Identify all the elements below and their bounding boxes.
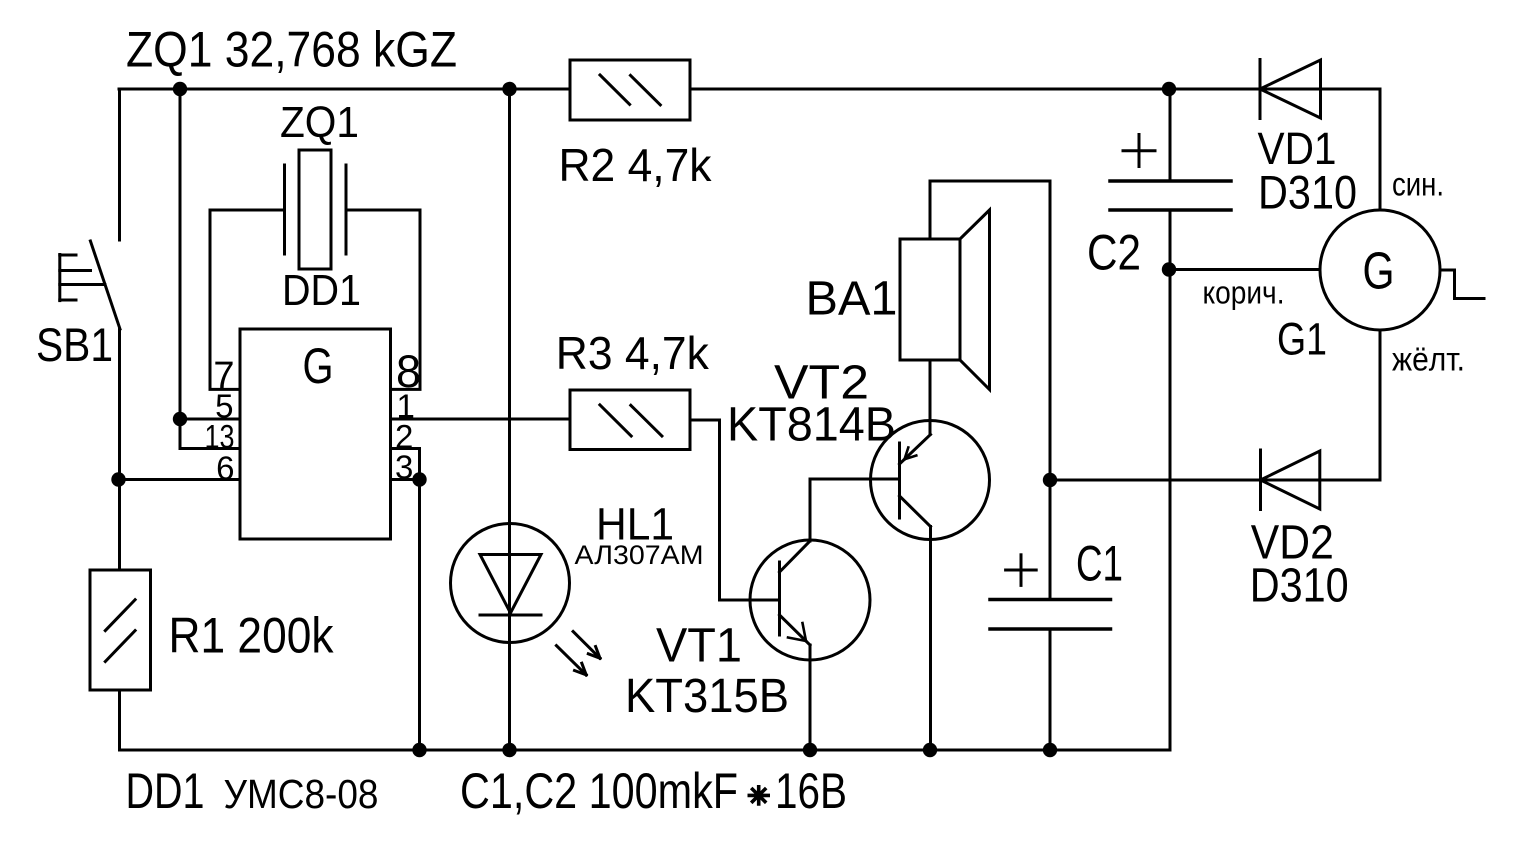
wire top rail left segment — [119, 88, 570, 91]
label UMC8-08 — [224, 771, 379, 817]
resistor R3 — [570, 390, 690, 450]
wire bottom rail — [120, 749, 1171, 752]
wire pin 6 stub — [119, 478, 241, 481]
wire top rail right segment — [690, 88, 1380, 91]
wire pin 5 stub — [180, 418, 240, 421]
junction dot pin 3 — [412, 472, 426, 486]
label BA1 — [806, 273, 898, 326]
junction dot top HL1 — [502, 82, 516, 96]
label D310 lower — [1250, 560, 1349, 613]
label DD1 — [282, 266, 361, 315]
label R3 4,7k — [556, 327, 710, 379]
wire VD2 rail — [1050, 479, 1380, 482]
junction dot C2 bottom — [1162, 262, 1176, 276]
junction dot bottom VT1 — [803, 743, 817, 757]
pin number 6 — [216, 449, 234, 486]
pin number 3 — [395, 448, 413, 485]
label C1 — [1076, 536, 1123, 592]
junction dot bottom VT2 — [923, 743, 937, 757]
diode VD1 — [1260, 60, 1321, 119]
wire SB1 top lead — [118, 89, 121, 240]
crystal ZQ1 — [285, 150, 347, 269]
svg-text:G: G — [1363, 243, 1395, 301]
svg-text:C1,C2 100mkF: C1,C2 100mkF — [460, 763, 738, 819]
label korich brown — [1203, 275, 1285, 311]
svg-text:син.: син. — [1392, 166, 1444, 203]
wire R1 bottom lead — [118, 690, 121, 750]
junction dot top C2 — [1162, 82, 1176, 96]
svg-text:корич.: корич. — [1203, 275, 1285, 311]
speaker BA1 — [900, 210, 990, 390]
IC DD1 — [240, 329, 391, 539]
wire C1 bottom lead — [1049, 629, 1052, 750]
junction dot pin 6 — [111, 472, 125, 486]
transistor VT2 — [871, 421, 990, 540]
svg-text:KT315B: KT315B — [625, 670, 789, 723]
svg-text:6: 6 — [216, 449, 234, 486]
wire pin 1 to R3 — [391, 418, 571, 421]
resistor R1 — [90, 570, 151, 690]
label SB1 — [36, 318, 113, 371]
svg-text:АЛ307АМ: АЛ307АМ — [575, 540, 704, 570]
label ZQ1 — [280, 98, 359, 147]
switch SB1 — [60, 241, 120, 329]
svg-text:DD1: DD1 — [126, 763, 205, 819]
wire right drop C2 top — [1169, 89, 1172, 181]
wire BA1 top to C1 branch — [930, 181, 1050, 600]
wire right drop C2 bottom — [1169, 210, 1172, 750]
svg-text:R3 4,7k: R3 4,7k — [556, 327, 710, 379]
LED HL1 — [451, 524, 601, 675]
label DD1 bottom — [126, 763, 205, 819]
svg-text:G: G — [303, 338, 334, 394]
svg-text:ZQ1 32,768 kGZ: ZQ1 32,768 kGZ — [126, 22, 457, 78]
pin number 13 — [205, 418, 235, 455]
IC DD1 letter G — [303, 338, 334, 394]
capacitor C1 — [990, 555, 1111, 629]
wire SB1 to R1 — [118, 329, 121, 570]
pin number 2 — [395, 418, 413, 455]
svg-text:KT814B: KT814B — [727, 399, 896, 452]
pin number 1 — [397, 388, 415, 425]
svg-text:УМС8-08: УМС8-08 — [224, 771, 379, 817]
label KT315B — [625, 670, 789, 723]
wire G1 top lead — [1379, 89, 1382, 210]
label KT814B — [727, 399, 896, 452]
svg-text:D310: D310 — [1250, 560, 1349, 613]
svg-text:R2 4,7k: R2 4,7k — [559, 139, 713, 191]
junction dot bottom C1 — [1043, 743, 1057, 757]
svg-text:DD1: DD1 — [282, 266, 361, 315]
junction dot pin 5 — [173, 412, 187, 426]
svg-text:VT1: VT1 — [656, 620, 742, 673]
wire pin 2 jumper — [391, 449, 420, 480]
label D310 upper — [1258, 165, 1357, 218]
svg-text:G1: G1 — [1277, 314, 1327, 365]
diode VD2 — [1261, 450, 1320, 510]
label sin blue — [1392, 166, 1444, 203]
svg-text:D310: D310 — [1258, 165, 1357, 218]
wire pin 3 stub — [391, 478, 420, 481]
label VT1 — [656, 620, 742, 673]
svg-text:16B: 16B — [775, 763, 847, 819]
pin number 7 — [213, 355, 234, 397]
label ZQ1 frequency — [126, 22, 457, 78]
junction dot C1 top — [1043, 473, 1057, 487]
junction dot top ZQ1 — [173, 82, 187, 96]
wire VT2 emitter to BA1 — [929, 360, 932, 435]
label zhelt yellow — [1392, 340, 1465, 377]
generator G1 — [1320, 210, 1484, 330]
svg-text:SB1: SB1 — [36, 318, 113, 371]
label VD1 — [1258, 123, 1337, 174]
wire C2 to G1 — [1169, 268, 1320, 271]
label VT2 — [774, 357, 869, 410]
resistor R2 — [570, 60, 690, 120]
label C2 — [1087, 225, 1141, 281]
wire pin 7 loop — [210, 210, 285, 389]
wire VT1 emitter down — [809, 645, 812, 750]
wire pin 8 loop — [346, 210, 420, 389]
svg-text:C2: C2 — [1087, 225, 1141, 281]
label G1 — [1277, 314, 1327, 365]
wire HL1 branch — [508, 89, 511, 750]
label C1 C2 value — [460, 763, 847, 819]
junction dot bottom pin3 — [412, 743, 426, 757]
svg-text:жёлт.: жёлт. — [1392, 340, 1465, 377]
svg-text:3: 3 — [395, 448, 413, 485]
capacitor C2 — [1110, 135, 1231, 211]
wire VT1 collector to VT2 base — [810, 479, 900, 541]
wire pin 3 down — [418, 480, 421, 751]
wire VT2 collector down — [929, 527, 932, 751]
wire pin 13 stub — [180, 447, 240, 450]
label VD2 — [1251, 516, 1334, 569]
junction dot bottom HL1 — [502, 743, 516, 757]
transistor VT1 — [750, 540, 870, 660]
wire R3 to VT1 base — [690, 420, 780, 600]
pin number 8 — [396, 346, 421, 397]
label R1 200k — [169, 608, 335, 664]
svg-text:R1 200k: R1 200k — [169, 608, 335, 664]
generator G1 letter G — [1363, 243, 1395, 301]
pin number 5 — [215, 388, 233, 425]
label AL307AM — [575, 540, 704, 570]
svg-text:BA1: BA1 — [806, 273, 898, 326]
wire G1 bottom lead — [1379, 330, 1382, 480]
label HL1 — [596, 499, 674, 550]
svg-text:ZQ1: ZQ1 — [280, 98, 359, 147]
svg-text:C1: C1 — [1076, 536, 1123, 592]
wire ZQ1 supply drop — [179, 89, 182, 449]
label R2 4,7k — [559, 139, 713, 191]
